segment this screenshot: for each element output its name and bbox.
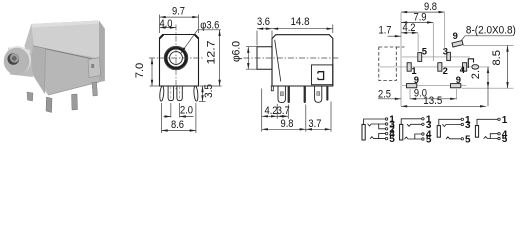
- dim 3.6ext/14.8 extension lines: [257, 25, 333, 46]
- barrel cylinder top highlight: [8, 48, 31, 54]
- svg-text:2.0: 2.0: [470, 64, 482, 80]
- S2 wire pin3 with contact v: [407, 124, 421, 126]
- middle pin 1 centerline: [170, 87, 172, 101]
- side wide pin A: [278, 86, 285, 103]
- S1 wire pin1: [364, 119, 386, 124]
- S4 post pin4: [490, 134, 498, 139]
- pad 9 bottom-left: [407, 84, 417, 88]
- S1 sleeve rect: [362, 124, 365, 140]
- S3 terminal 1: [461, 118, 463, 120]
- connector body top face: [31, 21, 104, 60]
- svg-text:8-(2.0X0.8): 8-(2.0X0.8): [466, 25, 516, 37]
- side thin pin E: [326, 86, 328, 101]
- svg-text:12.7: 12.7: [205, 41, 217, 65]
- barrel cylinder: [8, 48, 33, 78]
- dim 8.6 extension lines: [162, 103, 196, 133]
- svg-text:2.5: 2.5: [378, 88, 391, 100]
- body bottom edge: [48, 82, 99, 95]
- side centerline: [244, 57, 339, 59]
- common reference extension line: [400, 13, 402, 106]
- dim 12.7 line: [219, 30, 221, 86]
- barrel face rim highlight: [4, 46, 31, 74]
- middle pin 1: [168, 86, 174, 101]
- side body outline: [272, 35, 333, 86]
- dim phi6.0 extension lines: [246, 47, 257, 69]
- dim 12.7 arrows: [218, 30, 220, 86]
- dim 2.0 arrows: [487, 67, 489, 88]
- dim 3.5 extension line: [199, 100, 206, 102]
- svg-text:9: 9: [453, 30, 458, 41]
- dashed top stub: [396, 46, 404, 48]
- S1 wire pin5 with contact ^: [370, 137, 385, 139]
- dim 7.9 arrows: [401, 21, 433, 23]
- dim 9.0 line: [410, 98, 456, 100]
- S3 sleeve rect: [437, 126, 440, 138]
- body base silhouette: [25, 21, 105, 96]
- bracket near pad 4: [468, 59, 473, 68]
- S1 terminal 3: [385, 123, 387, 125]
- svg-text:3: 3: [465, 120, 471, 131]
- label 8-(2.0X0.8) leader: [461, 36, 514, 42]
- pad 1: [407, 63, 411, 71]
- side pin A hole: [280, 92, 283, 96]
- S4 sleeve rect: [475, 126, 478, 138]
- dim 9.8 ext right: [444, 13, 446, 50]
- svg-text:5: 5: [426, 135, 432, 145]
- svg-text:14.8: 14.8: [291, 16, 310, 28]
- S2 terminal 1: [422, 118, 424, 120]
- dim 4.2/3.7 extension lines: [262, 89, 289, 119]
- dim 7.9 line: [401, 21, 433, 23]
- dim 3.7b line: [306, 128, 331, 130]
- dim 3.6 arrows: [257, 28, 272, 30]
- svg-text:4.2: 4.2: [265, 105, 278, 117]
- barrel hole center: [12, 56, 17, 61]
- svg-text:2: 2: [443, 65, 448, 76]
- S2 sleeve rect: [400, 124, 403, 140]
- jack barrel ring outer edge: [164, 46, 188, 70]
- dim 9.7 arrows: [160, 16, 199, 18]
- middle pin 2: [177, 86, 182, 101]
- dim 9.8 line: [401, 11, 445, 13]
- vertical centerline: [175, 25, 177, 90]
- bent pin right: [193, 86, 198, 101]
- S2 wire pin1: [401, 119, 422, 125]
- dim 1.7 line: [388, 35, 402, 37]
- side pin D hole: [317, 92, 320, 96]
- S1 post pin2: [379, 124, 386, 129]
- connector body right end face: [99, 21, 105, 83]
- connector body top face highlight: [31, 21, 99, 28]
- dim 2.5 line: [378, 98, 401, 100]
- S1 terminal 5: [385, 137, 387, 139]
- dim 4.0 arrows: [160, 26, 177, 28]
- side wide pin D: [315, 86, 322, 102]
- side detail box: [312, 65, 333, 85]
- svg-text:3.5: 3.5: [203, 84, 215, 98]
- S1 post pin4: [379, 134, 386, 139]
- side detail hook: [318, 72, 324, 80]
- row line pads 5-3: [402, 56, 470, 58]
- dim 7.9 ext right: [432, 23, 434, 61]
- svg-text:5: 5: [502, 134, 508, 145]
- dim 12.7 extension line: [200, 85, 222, 87]
- svg-text:9: 9: [414, 74, 419, 85]
- svg-text:5: 5: [422, 46, 427, 57]
- body front narrow face: [29, 46, 46, 94]
- dim 2.0 line: [164, 116, 194, 118]
- photo pin middle: [72, 94, 78, 110]
- dim 9.8 line: [262, 128, 306, 130]
- top-front shadow edge: [33, 46, 100, 61]
- front-side corner edge: [45, 49, 46, 94]
- svg-text:3: 3: [443, 46, 448, 57]
- dim 14.8 line: [272, 28, 333, 30]
- side front pin stub: [271, 86, 273, 91]
- dim 4.2 ext right: [417, 34, 419, 52]
- right ext bottom: [462, 87, 514, 89]
- dim 3.7a line: [277, 115, 288, 117]
- pad 4: [463, 63, 467, 71]
- S2 terminal 5: [422, 138, 424, 140]
- dim phi3.6 arrow: [180, 47, 186, 53]
- S2 terminal 3: [422, 123, 424, 125]
- middle pin 2 centerline: [179, 87, 181, 101]
- S2 wire pin5 with contact ^: [405, 137, 422, 139]
- svg-text:8.6: 8.6: [171, 119, 184, 131]
- barrel front face: [4, 48, 30, 75]
- S2 post pin4: [415, 134, 422, 139]
- pad 9 top tilted: [452, 41, 463, 48]
- dim 8.5 line: [507, 46, 509, 89]
- S3 wire pin5 with contact ^: [446, 137, 461, 139]
- row line pads 9 bottom: [402, 85, 466, 87]
- svg-text:1: 1: [502, 115, 508, 126]
- S1 terminal 1: [385, 118, 387, 120]
- svg-text:3.6: 3.6: [257, 16, 270, 28]
- photo pin right: [92, 82, 98, 96]
- svg-text:13.5: 13.5: [423, 95, 442, 107]
- recess dot: [91, 64, 94, 68]
- dim 7.0 extension lines: [150, 85, 160, 87]
- svg-text:3.7: 3.7: [308, 118, 321, 130]
- S4 terminal 4: [498, 133, 500, 135]
- horizontal centerline: [149, 57, 203, 59]
- S2 terminal 4: [422, 133, 424, 135]
- dim 9.8 arrows: [401, 11, 445, 13]
- dim 3.5 line: [202, 86, 204, 101]
- side thin pin C: [304, 86, 306, 103]
- dim 2.0 arrows: [165, 115, 186, 117]
- dim 8.6 line: [162, 130, 196, 132]
- dim 8.6 arrows: [162, 129, 196, 131]
- side barrel outline: [257, 47, 272, 69]
- row line pads 1-2-4: [380, 66, 490, 68]
- barrel hole dark crescent: [8, 53, 20, 65]
- svg-text:4.2: 4.2: [403, 22, 416, 34]
- dim 8.5 arrows: [506, 46, 508, 89]
- S4 wire pin5 with contact ^: [484, 137, 498, 139]
- dim 13.5 line: [401, 105, 486, 107]
- svg-text:4.0: 4.0: [160, 18, 173, 30]
- svg-text:9: 9: [456, 74, 461, 85]
- svg-text:1.7: 1.7: [379, 25, 392, 37]
- svg-text:φ3.6: φ3.6: [200, 20, 219, 32]
- front body corner tick left: [160, 35, 164, 39]
- svg-text:2.0: 2.0: [180, 105, 193, 117]
- dim 9.7 line: [160, 16, 199, 18]
- bent pin left: [159, 86, 164, 101]
- dim phi6.0 arrows: [247, 47, 249, 69]
- dim 7.0 arrows: [151, 58, 153, 86]
- svg-text:9.8: 9.8: [281, 118, 294, 130]
- dim 9.8 arrows: [262, 128, 306, 130]
- S3 terminal 3: [461, 123, 463, 125]
- jack barrel ring: [166, 48, 186, 68]
- dim phi6.0 line: [247, 47, 249, 69]
- dim 3.5 arrows: [201, 86, 203, 101]
- dim 2.0 line: [487, 67, 489, 106]
- barrel hole ring inner: [10, 53, 19, 62]
- jack hole circle: [170, 52, 183, 65]
- S4 terminal 5: [498, 137, 500, 139]
- dim 9.0 ext lines: [410, 89, 456, 100]
- S1 terminal 2: [385, 128, 387, 130]
- dim 7.0 line: [151, 58, 153, 86]
- S1 wire pin3 with contact v: [368, 124, 386, 126]
- dim 9.8/3.7 extension lines: [262, 102, 331, 132]
- right ext top: [463, 45, 514, 47]
- front body outline: [160, 35, 199, 87]
- pad 5: [418, 53, 422, 62]
- svg-text:φ6.0: φ6.0: [230, 41, 242, 62]
- S4 terminal 1: [498, 118, 500, 120]
- dim 4.2 arrows: [401, 32, 418, 34]
- dim 2.0 extension lines: [171, 103, 180, 118]
- front body corner tick right: [195, 35, 199, 39]
- dim 13.5 arrows: [401, 105, 486, 107]
- S3 terminal 5: [461, 138, 463, 140]
- dim 2.5 arrow: [395, 98, 401, 100]
- photo pin front: [46, 97, 52, 113]
- pad 9 bottom-right: [451, 84, 461, 88]
- svg-text:9.7: 9.7: [172, 5, 185, 17]
- svg-text:5: 5: [465, 134, 471, 145]
- side thin pin B: [288, 86, 290, 103]
- dim 4.2 arrows: [262, 115, 278, 117]
- dim 4.2 line: [401, 32, 418, 34]
- svg-text:8.5: 8.5: [491, 50, 503, 66]
- dim 3.7b arrows: [306, 128, 331, 130]
- side body draft line: [275, 40, 281, 82]
- S4 wire pin1: [477, 119, 498, 125]
- dim 9.0 arrows: [410, 98, 456, 100]
- dim 14.8 arrows: [272, 28, 333, 30]
- side face recess: [88, 58, 101, 78]
- dim 4.2 line: [262, 115, 278, 117]
- pad 3: [447, 52, 451, 60]
- dim 4.0 line: [160, 27, 177, 29]
- S1 terminal 4: [385, 132, 387, 134]
- dim 1.7 arrow: [395, 35, 401, 37]
- dim phi3.6 leader: [181, 30, 221, 53]
- pad 2: [438, 63, 442, 71]
- hidden barrel dashed rect: [379, 47, 397, 81]
- S3 wire pin1: [439, 119, 461, 125]
- dim 9.7 extension lines: [160, 15, 199, 34]
- photo front peg: [27, 92, 33, 101]
- svg-text:7.0: 7.0: [134, 63, 146, 79]
- dim 3.7a arrows: [277, 115, 288, 117]
- svg-text:5: 5: [389, 134, 395, 145]
- svg-text:3.7: 3.7: [277, 105, 290, 117]
- connector body side face: [33, 46, 100, 95]
- dim 3.6 line: [257, 28, 272, 30]
- S3 wire pin3 with contact v: [443, 125, 462, 127]
